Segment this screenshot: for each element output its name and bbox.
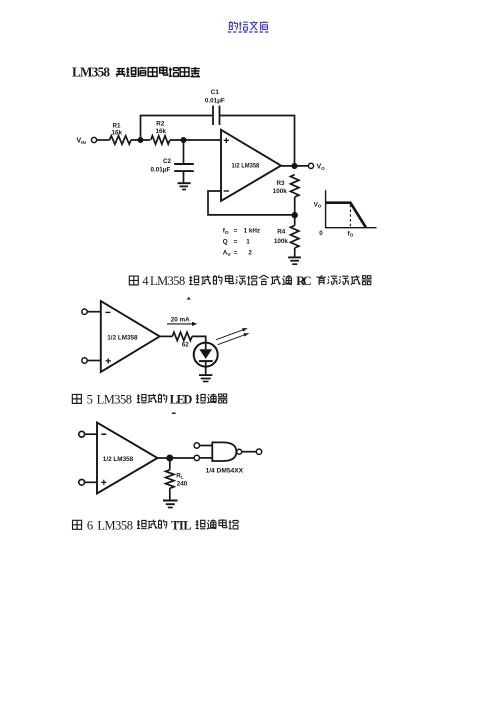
resistor R3 100k xyxy=(273,175,299,197)
inverting input terminal xyxy=(82,309,87,314)
NAND gate input terminal 2 xyxy=(194,455,212,460)
wire - input xyxy=(85,433,97,435)
wire VIN to R1 xyxy=(97,139,110,141)
inverting input terminal xyxy=(79,431,85,437)
svg-text:R1: R1 xyxy=(112,122,121,129)
svg-text:20 mA: 20 mA xyxy=(171,316,190,323)
svg-text:0.01μF: 0.01μF xyxy=(151,166,171,173)
svg-text:4: 4 xyxy=(142,274,148,288)
wire NAND output xyxy=(242,451,257,453)
graph label VO xyxy=(314,201,322,208)
wire + input xyxy=(87,360,101,362)
NAND gate U4 1/4 DM54XX xyxy=(206,442,244,474)
svg-text:1/2 LM358: 1/2 LM358 xyxy=(107,335,138,342)
svg-text:LED: LED xyxy=(170,392,193,406)
wire RL to ground xyxy=(169,488,171,500)
wire op-amp output to gate xyxy=(158,457,195,459)
svg-text:62: 62 xyxy=(182,341,190,348)
wire to RL xyxy=(169,458,171,470)
svg-text:Q: Q xyxy=(223,238,228,245)
wire node A up to C1 xyxy=(141,116,214,141)
svg-text:1/4 DM54XX: 1/4 DM54XX xyxy=(206,468,244,475)
junction output node xyxy=(291,163,297,169)
svg-text:2: 2 xyxy=(248,249,252,256)
svg-text:fO: fO xyxy=(348,230,354,237)
output wire xyxy=(281,165,308,167)
graph axes xyxy=(326,190,377,227)
svg-text:RC: RC xyxy=(296,274,311,288)
wire C1 to output column xyxy=(220,116,295,167)
svg-text:fO: fO xyxy=(223,228,229,236)
svg-text:240: 240 xyxy=(177,480,188,487)
resistor R1 16k xyxy=(110,122,132,144)
svg-text:R3: R3 xyxy=(276,180,285,187)
svg-text:=: = xyxy=(234,238,238,245)
caption figure 4 xyxy=(129,274,371,288)
svg-text:1 kHz: 1 kHz xyxy=(244,228,260,235)
wire R4 to ground xyxy=(294,248,296,257)
non-inverting input terminal xyxy=(79,479,85,485)
junction output node xyxy=(166,455,173,462)
graph label 0 xyxy=(319,230,323,237)
non-inverting input terminal xyxy=(82,358,87,363)
stray mark small triangle xyxy=(187,297,191,300)
ground (C2) xyxy=(178,183,191,189)
svg-text:R2: R2 xyxy=(156,121,165,128)
annotation fO Q AV xyxy=(223,228,260,258)
LED D1 diode xyxy=(199,349,213,361)
resistor R4 100k xyxy=(274,225,299,248)
ground (LED) xyxy=(199,375,212,381)
capacitor C2 0.01uF xyxy=(151,158,194,173)
svg-text:5: 5 xyxy=(87,392,93,406)
svg-text:C2: C2 xyxy=(163,158,172,165)
input terminal circle VIN xyxy=(91,137,96,142)
wire - input xyxy=(87,311,101,313)
resistor RL 240 xyxy=(166,470,188,489)
svg-text:0: 0 xyxy=(319,230,323,237)
label 20 mA with arrow xyxy=(167,316,197,326)
title LM358 典型应用电路图集 xyxy=(72,64,200,79)
light emission arrow 1 xyxy=(216,328,248,340)
junction node C xyxy=(292,212,298,218)
svg-text:RL: RL xyxy=(176,472,184,479)
svg-text:16k: 16k xyxy=(156,128,167,135)
wire R3 to node C xyxy=(294,197,296,225)
wire + input xyxy=(85,481,97,483)
wire C2 to ground xyxy=(183,171,185,183)
svg-text:C1: C1 xyxy=(211,89,220,96)
resistor R2 16k xyxy=(151,121,170,145)
link text 易读文库 (blue) xyxy=(228,21,270,32)
svg-text:6: 6 xyxy=(87,518,93,532)
ground (RL) xyxy=(163,501,178,508)
op-amp U2A 1/2 LM358 xyxy=(101,301,160,372)
svg-text:100k: 100k xyxy=(273,188,288,195)
caption figure 6 xyxy=(73,518,239,532)
capacitor C1 0.01uF xyxy=(205,89,225,125)
NAND gate input terminal 1 xyxy=(194,443,212,448)
svg-text:VO: VO xyxy=(317,164,326,171)
svg-text:VO: VO xyxy=(314,201,322,208)
svg-text:1: 1 xyxy=(246,238,250,245)
stray dash xyxy=(172,413,176,415)
ground (R4) xyxy=(288,257,301,264)
resistor 62 xyxy=(172,332,192,348)
svg-text:1/2 LM358: 1/2 LM358 xyxy=(232,162,260,169)
svg-text:=: = xyxy=(234,249,238,256)
svg-text:AV: AV xyxy=(223,249,232,257)
svg-text:1/2 LM358: 1/2 LM358 xyxy=(103,456,134,463)
op-amp U1A 1/2 LM358 xyxy=(221,130,281,201)
caption figure 5 xyxy=(72,392,227,406)
feedback wire - input to R3/R4 node xyxy=(208,191,295,215)
LED D1 circle xyxy=(194,343,218,367)
svg-text:0.01μF: 0.01μF xyxy=(205,98,225,105)
wire resistor to LED xyxy=(192,336,206,349)
svg-text:LM358: LM358 xyxy=(97,518,132,532)
light emission arrow 2 xyxy=(218,333,250,345)
graph label fO xyxy=(348,230,354,237)
wire node B down to C2 xyxy=(183,140,185,164)
svg-text:16k: 16k xyxy=(112,129,123,136)
svg-text:=: = xyxy=(234,228,238,235)
output terminal circle xyxy=(256,449,261,454)
op-amp U3A 1/2 LM358 xyxy=(97,423,158,494)
NAND output bubble xyxy=(237,449,242,454)
wire op-amp output to resistor xyxy=(160,335,173,337)
node VO label xyxy=(317,164,326,171)
junction node B (C2 tap) xyxy=(181,137,187,143)
svg-text:TTL: TTL xyxy=(171,518,192,532)
graph response curve xyxy=(326,203,366,228)
svg-text:100k: 100k xyxy=(274,238,289,245)
junction node A xyxy=(138,137,144,143)
output terminal circle VO xyxy=(308,163,313,168)
svg-text:R4: R4 xyxy=(277,229,286,236)
graph dashed fO line xyxy=(349,205,351,227)
svg-text:LM358: LM358 xyxy=(150,274,185,288)
svg-text:LM358: LM358 xyxy=(72,64,110,79)
svg-text:LM358: LM358 xyxy=(97,392,132,406)
wire R1 to node A xyxy=(131,139,150,141)
wire LED to ground xyxy=(205,361,207,375)
wire R2 to op-amp + input xyxy=(170,139,221,141)
svg-text:VIN: VIN xyxy=(77,138,87,145)
node VIN input label xyxy=(77,138,87,145)
